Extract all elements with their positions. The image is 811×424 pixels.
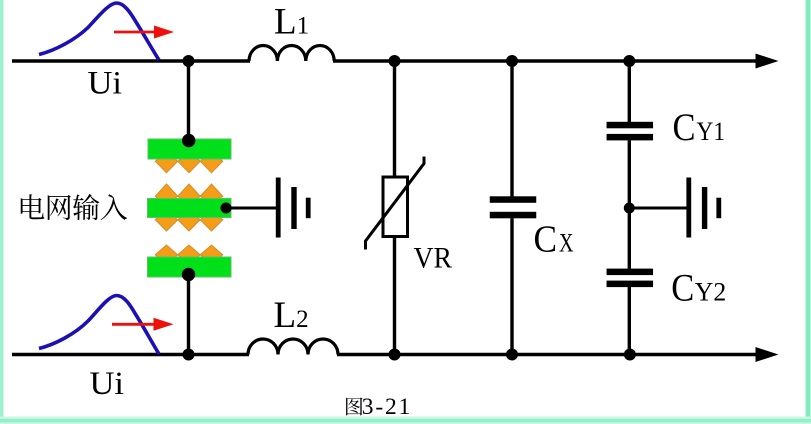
varistor VR [366, 157, 425, 250]
svg-text:Y1: Y1 [697, 116, 726, 146]
wire: bottom rail, output segment [337, 353, 757, 356]
wire: CY branch, middle segment [628, 140, 631, 268]
svg-text:Ui: Ui [90, 366, 125, 402]
node: top rail / VR [389, 55, 401, 67]
svg-text:L1: L1 [274, 2, 309, 43]
capacitor CY2 [607, 269, 654, 288]
svg-text:Y2: Y2 [695, 276, 727, 306]
wire: Cx branch, top segment [510, 61, 513, 197]
inductor L2 [248, 339, 338, 355]
node: arrester E2 to ground lead [221, 203, 232, 214]
ground (left) [276, 178, 311, 238]
svg-text:Ui: Ui [88, 66, 123, 102]
wire: bottom rail, input segment [12, 353, 249, 356]
arrester electrode E1 (top bar with teeth) [148, 139, 231, 173]
arrester electrode E2 (middle bar with teeth) [148, 184, 232, 231]
arrow: surge direction (bottom) [112, 323, 155, 326]
surge waveform Ui (top) [39, 3, 159, 60]
node: top rail / CY [623, 55, 635, 67]
wire: CY midpoint to right ground [629, 207, 687, 210]
wire: VR branch, top segment [393, 61, 396, 178]
node: CY midpoint to ground [624, 203, 635, 214]
wire: arrester E2 to left ground [226, 207, 276, 210]
capacitor CX [490, 196, 537, 218]
node: top rail / arrester tap [183, 55, 195, 67]
node: bottom rail / CY [624, 349, 636, 361]
arrester electrode E3 (bottom bar with teeth) [148, 245, 232, 277]
node: arrester E1 connection [182, 134, 195, 147]
wire: arrester E3 to bottom rail [187, 277, 190, 355]
label 图3-21 (figure caption) [346, 394, 412, 420]
node: arrester E3 connection [182, 268, 195, 281]
node: bottom rail / VR [389, 349, 401, 361]
svg-text:C: C [671, 265, 694, 309]
wire: top rail, output segment [333, 59, 757, 62]
arrowhead: bottom rail output [756, 347, 779, 362]
arrow: surge direction (top) [114, 31, 157, 34]
node: top rail / Cx [506, 55, 518, 67]
arrowhead: top rail output [756, 54, 779, 69]
capacitor CY1 [607, 122, 654, 141]
svg-text:3-21: 3-21 [362, 394, 412, 420]
wire: CY branch, bottom segment [628, 287, 631, 355]
wire: top rail to arrester electrode E1 [187, 61, 190, 140]
svg-text:C: C [534, 219, 558, 261]
wire: top rail, input segment [12, 59, 250, 62]
wire: Cx branch, bottom segment [510, 218, 513, 354]
svg-text:L2: L2 [274, 295, 309, 336]
svg-text:X: X [559, 229, 574, 258]
node: bottom rail / Cx [506, 349, 518, 361]
wire: VR branch, bottom segment [393, 236, 396, 355]
inductor L1 [249, 45, 334, 61]
svg-text:C: C [673, 106, 696, 149]
node: bottom rail / arrester tap [183, 349, 195, 361]
surge waveform Ui (bottom) [39, 296, 159, 355]
ground (right) [686, 178, 721, 238]
label 电网输入 [21, 194, 127, 220]
svg-text:VR: VR [414, 242, 453, 275]
wire: CY branch, top segment [628, 61, 631, 122]
